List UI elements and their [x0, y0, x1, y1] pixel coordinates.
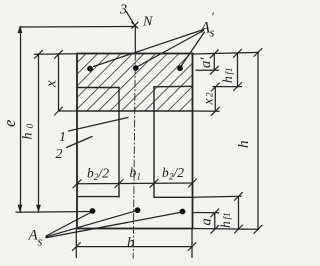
svg-text:a: a — [199, 218, 215, 225]
svg-text:/2: /2 — [173, 165, 185, 180]
centerline axis — [134, 26, 136, 54]
svg-text:f1: f1 — [222, 212, 232, 219]
tick h bottom — [254, 225, 262, 233]
svg-text:s: s — [38, 235, 43, 249]
As' leader middle — [139, 31, 204, 67]
x dimension line — [58, 54, 60, 111]
svg-text:a′: a′ — [198, 57, 214, 68]
void bottom extension right — [193, 196, 242, 197]
leader 2 — [67, 137, 93, 148]
b1 bg dimension row — [77, 182, 193, 185]
svg-text:x: x — [44, 80, 60, 88]
tick hf1 bottom — [234, 83, 242, 91]
svg-text:e: e — [0, 120, 19, 127]
svg-text:x: x — [201, 99, 216, 106]
svg-text:2: 2 — [56, 147, 63, 162]
svg-text:h: h — [21, 133, 36, 140]
tick b row 119 — [115, 180, 123, 188]
left void top edge — [77, 87, 119, 89]
left void right side — [118, 88, 120, 198]
svg-text:b: b — [130, 165, 137, 180]
tick hf1b bottom — [235, 225, 243, 233]
tick x2 bottom — [211, 107, 219, 115]
svg-text:b: b — [127, 235, 135, 251]
dimension ticks (45 deg slashes) — [35, 48, 263, 250]
bottom face extension right — [193, 228, 259, 231]
svg-text:h: h — [218, 221, 233, 228]
As level extension right — [193, 212, 219, 214]
left void bottom — [78, 196, 119, 198]
svg-text:1: 1 — [59, 130, 66, 145]
b dimension line — [76, 246, 192, 248]
svg-text:f1: f1 — [224, 67, 234, 74]
tick b left — [72, 243, 80, 251]
tick h top — [254, 48, 262, 56]
hatched compression zone — [77, 54, 193, 112]
e dimension line — [20, 27, 22, 213]
arrow e top — [18, 26, 23, 34]
h dimension line — [257, 52, 259, 229]
As bar middle — [135, 207, 141, 213]
As' bar right — [177, 65, 183, 71]
tick b right — [188, 243, 196, 251]
tick a top — [211, 209, 219, 217]
arrow e bottom — [18, 205, 23, 213]
b extension right — [191, 229, 193, 258]
tick hf1 top — [234, 49, 242, 57]
e extension line to N — [21, 26, 135, 29]
section outline — [77, 54, 193, 229]
svg-text:2: 2 — [205, 92, 215, 97]
tick a bottom — [211, 225, 219, 233]
h0 dimension line — [38, 54, 40, 212]
svg-text:/2: /2 — [98, 166, 110, 181]
svg-text:b: b — [162, 165, 169, 180]
tick h0 top — [35, 50, 43, 58]
tick b row 154 — [150, 179, 158, 187]
As leader middle — [46, 211, 136, 237]
leader 1 — [69, 118, 129, 132]
svg-text:N: N — [142, 15, 153, 30]
right void left side — [153, 87, 155, 198]
tick x bottom — [55, 107, 63, 115]
hf1 bottom extension — [213, 86, 242, 88]
svg-text:h: h — [220, 76, 235, 83]
svg-text:1: 1 — [137, 172, 142, 182]
top face extension right — [193, 52, 259, 54]
compression zone bottom line x2 level — [77, 110, 193, 112]
As' bar left — [87, 66, 93, 72]
right void top edge — [154, 85, 193, 88]
svg-text:3: 3 — [119, 3, 127, 18]
x2 dimension line — [214, 87, 216, 111]
svg-text:s: s — [210, 26, 215, 40]
top face extension left — [35, 53, 78, 56]
b extension left — [75, 229, 77, 258]
a' dimension line — [213, 54, 215, 70]
As leader left — [46, 212, 92, 236]
x2 bottom extension — [193, 110, 220, 112]
arrow h0 bottom — [36, 205, 41, 213]
As level extension left — [16, 211, 90, 214]
tick x2 top — [211, 83, 219, 91]
As' leader left — [94, 30, 204, 67]
right void bottom — [154, 196, 192, 198]
tick b row right — [189, 179, 197, 187]
svg-text:′: ′ — [211, 9, 214, 24]
As bar right — [180, 209, 186, 215]
svg-text:h: h — [236, 141, 252, 149]
As leader right — [46, 212, 181, 238]
tick a' bottom — [210, 66, 218, 74]
svg-text:b: b — [87, 166, 94, 181]
tick a' left — [210, 50, 218, 58]
As' bar middle — [133, 65, 139, 71]
hf1 bottom dimension line — [238, 196, 240, 229]
As bar left — [90, 208, 96, 214]
tick hf1b top — [235, 192, 243, 200]
hf1 top dimension line — [237, 53, 239, 87]
force point cross N — [132, 22, 138, 28]
svg-text:0: 0 — [26, 124, 36, 129]
tick b row left — [73, 180, 81, 188]
tick x top — [55, 50, 63, 58]
arrowheads — [18, 26, 41, 213]
leader to callout 3 — [126, 12, 133, 24]
a dimension line — [214, 213, 216, 230]
As' leader right — [182, 32, 205, 66]
x bottom extension — [59, 110, 78, 112]
a' bottom extension — [196, 69, 219, 71]
reinforcement bars — [87, 65, 185, 214]
